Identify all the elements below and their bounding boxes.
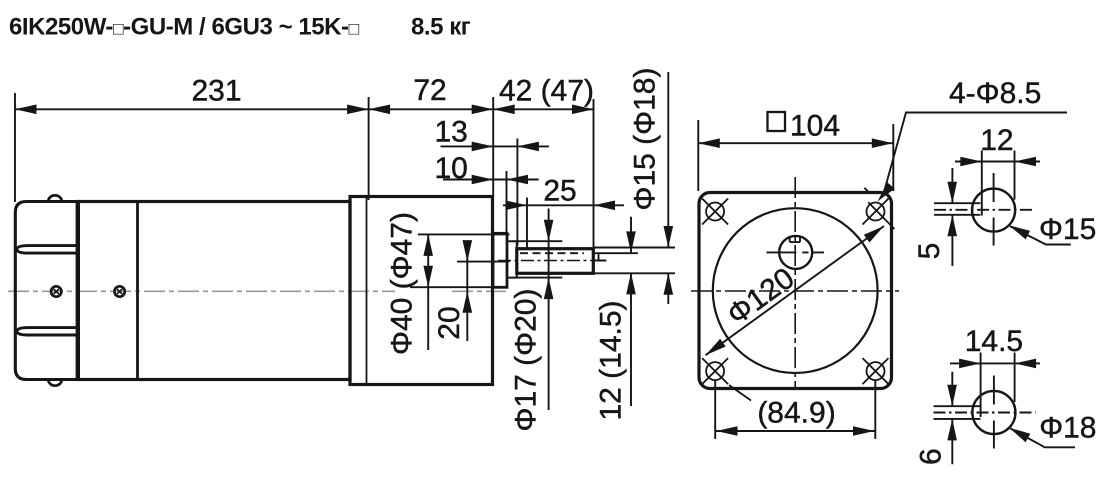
dimension (84.9) bbox=[714, 381, 716, 439]
motor centerline (gray) bbox=[8, 290, 506, 292]
bolt hole bottom-right bbox=[863, 358, 889, 384]
flange pilot circle bbox=[713, 208, 878, 373]
detail Φ18 dim 14.5 extension lines bbox=[981, 353, 1015, 418]
bolt hole top-left bbox=[702, 199, 728, 225]
motor body internal line bbox=[136, 202, 139, 380]
detail Φ15 dimension 12 bbox=[955, 161, 1040, 163]
top bump on rear cover bbox=[48, 195, 62, 201]
output boss Φ40 bbox=[493, 233, 507, 287]
detail Φ15 horizontal centerline bbox=[934, 209, 1036, 211]
Φ120 diagonal dimension line bbox=[706, 226, 885, 355]
detail Φ18 dimension 6 bbox=[951, 372, 953, 465]
dimension 10 bbox=[443, 179, 539, 181]
arrow 72 right bbox=[472, 105, 494, 115]
dimension Φ15 (Φ18) shaft dia bbox=[594, 247, 676, 249]
svg-text:5: 5 bbox=[913, 243, 946, 260]
svg-text:72: 72 bbox=[413, 74, 446, 107]
motor rear cover outline bbox=[15, 202, 78, 380]
bolt hole bottom-left bbox=[702, 358, 751, 400]
svg-text:Φ15 (Φ18): Φ15 (Φ18) bbox=[629, 68, 662, 211]
title text bbox=[9, 14, 471, 41]
svg-text:Φ40 (Φ47): Φ40 (Φ47) bbox=[386, 212, 419, 355]
svg-text:20: 20 bbox=[433, 306, 466, 339]
svg-text:12 (14.5): 12 (14.5) bbox=[595, 300, 628, 420]
shaft keyway hidden line bbox=[520, 252, 584, 254]
svg-text:(84.9): (84.9) bbox=[757, 397, 835, 430]
collar Φ17 bbox=[507, 241, 517, 277]
extension line motor/gear boundary bbox=[368, 97, 370, 200]
shaft hole circle bbox=[779, 236, 812, 269]
detail Φ15 dim 12 extension lines bbox=[982, 151, 1015, 216]
arrow 72 left bbox=[369, 105, 391, 115]
dimension Φ40 (Φ47) bbox=[418, 233, 510, 235]
flange square body bbox=[699, 193, 892, 389]
svg-text:104: 104 bbox=[790, 110, 840, 143]
svg-text:13: 13 bbox=[435, 116, 468, 149]
arrow 42 left bbox=[493, 105, 515, 115]
arrow 231 right bbox=[347, 105, 369, 115]
svg-text:6: 6 bbox=[915, 448, 948, 465]
detail Φ15 keyway flat lines bbox=[934, 203, 980, 215]
extension line shaft end bbox=[593, 99, 595, 248]
detail Φ18 dimension 14.5 bbox=[950, 362, 1040, 364]
dimension 13 bbox=[441, 145, 550, 147]
detail Φ15 shaft section circle bbox=[972, 189, 1015, 232]
svg-text:Φ15: Φ15 bbox=[1039, 213, 1096, 246]
dimension 20 (shaft offset) bbox=[457, 261, 510, 263]
shaft hole horizontal centerline bbox=[767, 251, 825, 253]
motor body bbox=[78, 202, 350, 380]
dimension Φ17 (Φ20) bbox=[517, 240, 562, 242]
svg-text:231: 231 bbox=[191, 75, 241, 108]
gearbox body bbox=[350, 197, 493, 385]
shaft end tick cluster bbox=[595, 253, 638, 262]
output shaft bbox=[517, 249, 594, 274]
dimension 12 (14.5) keyway depth bbox=[630, 217, 632, 406]
detail Φ18 keyway flat lines bbox=[934, 406, 981, 419]
shaft hole keyway notch bbox=[790, 237, 800, 242]
dimension □104 bbox=[698, 142, 893, 144]
main dimension line 231/72/42 bbox=[15, 108, 594, 110]
svg-text:8.5 кг: 8.5 кг bbox=[411, 14, 471, 41]
svg-text:14.5: 14.5 bbox=[965, 325, 1023, 358]
detail Φ15 dimension 5 bbox=[951, 168, 953, 266]
detail Φ18 shaft section circle bbox=[972, 391, 1015, 434]
rear cover / body joint line bbox=[76, 202, 80, 379]
detail Φ18 horizontal centerline bbox=[934, 412, 1036, 414]
svg-text:10: 10 bbox=[435, 152, 468, 185]
svg-text:Φ120: Φ120 bbox=[721, 262, 800, 332]
rear cover divider 2 bbox=[17, 328, 78, 335]
dimension 25 bbox=[503, 204, 624, 206]
extension line gearbox face bbox=[492, 97, 494, 196]
svg-text:6IK250W-□-GU-M / 6GU3 ~ 15K-□: 6IK250W-□-GU-M / 6GU3 ~ 15K-□ bbox=[9, 14, 360, 41]
svg-text:25: 25 bbox=[543, 175, 576, 208]
detail Φ18 vertical centerline bbox=[993, 376, 995, 449]
screw 2 bbox=[114, 286, 124, 296]
screw 1 bbox=[51, 286, 61, 296]
arrow 42 right bbox=[572, 105, 594, 115]
rear cover divider 1 bbox=[17, 246, 78, 254]
shaft centerline bbox=[498, 260, 607, 262]
svg-text:Φ18: Φ18 bbox=[1039, 412, 1096, 445]
svg-text:42 (47): 42 (47) bbox=[499, 74, 594, 107]
svg-text:4-Φ8.5: 4-Φ8.5 bbox=[949, 77, 1041, 110]
flange horizontal centerline bbox=[691, 290, 899, 292]
detail Φ15 vertical centerline bbox=[993, 173, 995, 246]
extension line left end bbox=[14, 93, 16, 202]
svg-text:Φ17 (Φ20): Φ17 (Φ20) bbox=[510, 289, 543, 432]
flange vertical centerline bbox=[794, 177, 796, 389]
arrow 231 left bbox=[15, 105, 37, 115]
gearbox flange plate line bbox=[366, 197, 368, 385]
bolt hole top-right bbox=[863, 188, 895, 229]
svg-text:12: 12 bbox=[980, 124, 1013, 157]
bottom bump on rear cover bbox=[48, 380, 62, 386]
